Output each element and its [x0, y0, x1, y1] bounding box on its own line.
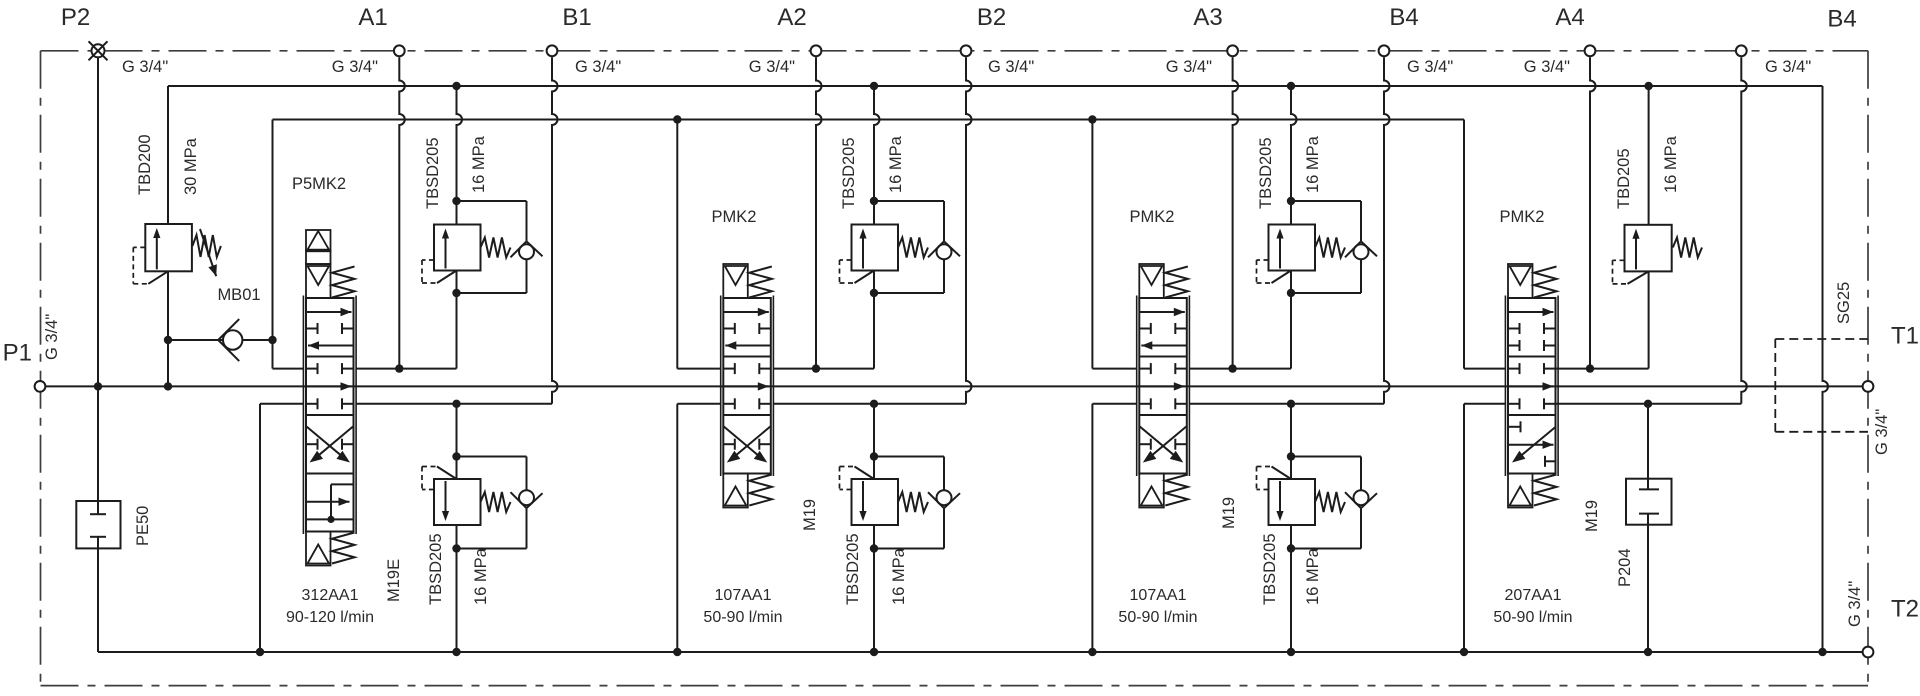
svg-text:MB01: MB01	[217, 286, 260, 304]
svg-text:A2: A2	[777, 4, 806, 31]
svg-text:A4: A4	[1555, 4, 1584, 31]
svg-text:P5MK2: P5MK2	[292, 175, 346, 193]
svg-text:TBD205: TBD205	[1615, 148, 1633, 209]
svg-text:G 3/4": G 3/4"	[332, 58, 378, 76]
svg-text:B4: B4	[1389, 4, 1418, 31]
svg-text:16 MPa: 16 MPa	[1304, 547, 1322, 605]
svg-text:B1: B1	[562, 4, 591, 31]
svg-text:107AA1: 107AA1	[1130, 587, 1187, 604]
svg-text:G 3/4": G 3/4"	[988, 58, 1034, 76]
svg-text:PE50: PE50	[134, 506, 152, 546]
svg-text:TBSD205: TBSD205	[427, 533, 445, 605]
svg-text:50-90 l/min: 50-90 l/min	[1493, 609, 1572, 626]
svg-text:TBSD205: TBSD205	[424, 137, 442, 209]
svg-text:TBSD205: TBSD205	[1261, 533, 1279, 605]
svg-text:207AA1: 207AA1	[1505, 587, 1562, 604]
svg-text:TBSD205: TBSD205	[1257, 137, 1275, 209]
svg-text:T1: T1	[1891, 323, 1919, 350]
svg-text:312AA1: 312AA1	[302, 587, 359, 604]
svg-text:M19: M19	[1583, 500, 1601, 532]
svg-text:PMK2: PMK2	[712, 208, 757, 226]
svg-text:A3: A3	[1193, 4, 1222, 31]
svg-text:16 MPa: 16 MPa	[890, 547, 908, 605]
svg-text:SG25: SG25	[1835, 282, 1853, 324]
svg-text:16 MPa: 16 MPa	[887, 135, 905, 193]
svg-text:G 3/4": G 3/4"	[1524, 58, 1570, 76]
svg-text:PMK2: PMK2	[1130, 208, 1175, 226]
svg-text:30 MPa: 30 MPa	[182, 137, 200, 195]
svg-text:G 3/4": G 3/4"	[122, 58, 168, 76]
svg-text:G 3/4": G 3/4"	[1407, 58, 1453, 76]
svg-text:P204: P204	[1616, 548, 1634, 587]
svg-text:P1: P1	[3, 340, 32, 367]
svg-text:TBSD205: TBSD205	[840, 137, 858, 209]
svg-text:G 3/4": G 3/4"	[1166, 58, 1212, 76]
svg-text:M19: M19	[1220, 497, 1238, 529]
svg-text:16 MPa: 16 MPa	[472, 547, 490, 605]
svg-text:16 MPa: 16 MPa	[1662, 135, 1680, 193]
svg-text:B2: B2	[977, 4, 1006, 31]
svg-text:90-120 l/min: 90-120 l/min	[286, 609, 374, 626]
svg-text:16 MPa: 16 MPa	[470, 135, 488, 193]
svg-text:P2: P2	[61, 4, 90, 31]
svg-text:16 MPa: 16 MPa	[1304, 135, 1322, 193]
svg-text:G 3/4": G 3/4"	[1873, 409, 1891, 455]
svg-text:B4: B4	[1827, 6, 1856, 33]
svg-text:TBSD205: TBSD205	[844, 533, 862, 605]
svg-text:107AA1: 107AA1	[715, 587, 772, 604]
svg-text:TBD200: TBD200	[136, 134, 154, 195]
svg-text:T2: T2	[1891, 596, 1919, 623]
svg-text:50-90 l/min: 50-90 l/min	[1118, 609, 1197, 626]
svg-text:G 3/4": G 3/4"	[1846, 581, 1864, 627]
svg-text:A1: A1	[358, 4, 387, 31]
svg-text:G 3/4": G 3/4"	[43, 314, 61, 360]
svg-text:M19E: M19E	[385, 559, 403, 602]
svg-text:M19: M19	[801, 499, 819, 531]
svg-text:G 3/4": G 3/4"	[749, 58, 795, 76]
svg-text:PMK2: PMK2	[1500, 208, 1545, 226]
svg-text:50-90 l/min: 50-90 l/min	[703, 609, 782, 626]
svg-text:G 3/4": G 3/4"	[1765, 58, 1811, 76]
svg-text:G 3/4": G 3/4"	[575, 58, 621, 76]
